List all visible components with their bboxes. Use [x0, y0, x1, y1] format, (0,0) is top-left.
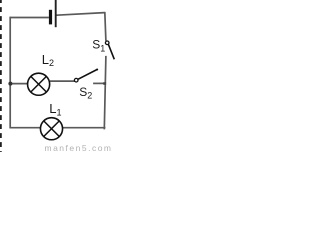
svg-text:manfen5.com: manfen5.com — [45, 143, 113, 152]
